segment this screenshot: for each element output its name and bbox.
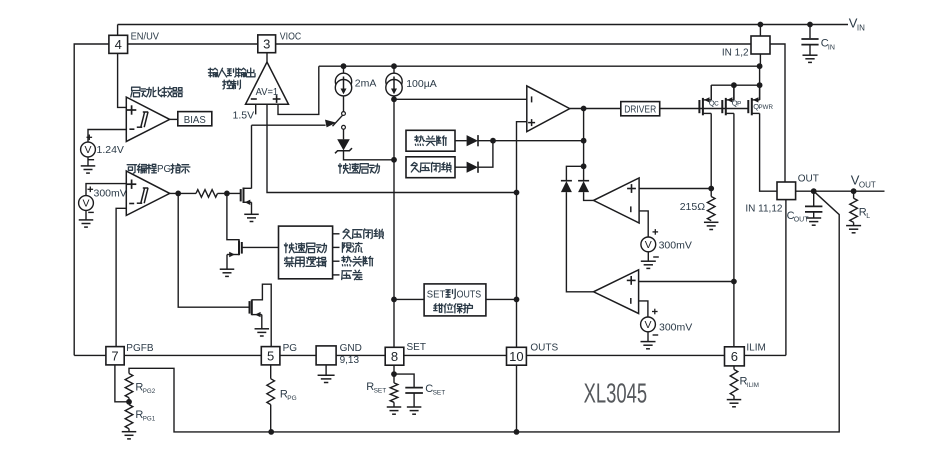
svg-text:GND: GND (340, 343, 362, 354)
svg-text:DRIVER: DRIVER (624, 104, 656, 115)
svg-text:PWR: PWR (759, 104, 774, 111)
svg-text:7: 7 (111, 349, 118, 364)
svg-text:XL3045: XL3045 (584, 378, 648, 409)
svg-text:EN/UV: EN/UV (131, 31, 160, 42)
svg-text:OUT: OUT (798, 174, 819, 185)
svg-text:5: 5 (267, 349, 274, 364)
svg-text:PG: PG (287, 395, 296, 402)
svg-text:ILIM: ILIM (747, 382, 759, 389)
svg-text:6: 6 (731, 349, 738, 364)
svg-text:V: V (84, 144, 91, 156)
svg-text:PG: PG (283, 343, 298, 354)
svg-text:8: 8 (391, 349, 398, 364)
svg-text:PG1: PG1 (143, 416, 156, 423)
svg-text:SET: SET (407, 342, 426, 353)
svg-text:4: 4 (115, 37, 122, 52)
svg-text:1.24V: 1.24V (97, 144, 124, 156)
svg-text:PGFB: PGFB (126, 343, 154, 354)
svg-text:1.5V: 1.5V (233, 109, 255, 121)
svg-text:IN: IN (857, 23, 865, 32)
svg-text:PG: PG (157, 164, 171, 175)
svg-text:VIOC: VIOC (280, 32, 301, 43)
svg-text:215Ω: 215Ω (680, 201, 706, 213)
svg-text:OUTS: OUTS (457, 290, 482, 301)
svg-text:300mV: 300mV (659, 240, 692, 252)
svg-text:OUT: OUT (859, 180, 876, 189)
svg-text:10: 10 (509, 349, 523, 364)
svg-text:P: P (737, 101, 741, 108)
svg-text:SET: SET (427, 290, 446, 301)
svg-text:300mV: 300mV (94, 188, 127, 200)
svg-text:BIAS: BIAS (184, 114, 206, 126)
svg-text:IN 1,2: IN 1,2 (722, 47, 749, 58)
svg-text:V: V (645, 239, 652, 251)
svg-text:V: V (82, 198, 89, 210)
svg-text:IN: IN (828, 44, 835, 51)
svg-text:C: C (714, 101, 719, 108)
svg-text:AV=1: AV=1 (256, 87, 279, 98)
svg-text:V: V (644, 319, 651, 331)
svg-text:ILIM: ILIM (746, 342, 765, 353)
svg-text:SET: SET (433, 390, 446, 397)
svg-text:300mV: 300mV (659, 321, 692, 333)
svg-text:OUT: OUT (794, 217, 810, 224)
svg-text:IN 11,12: IN 11,12 (745, 203, 782, 214)
svg-text:PG2: PG2 (143, 388, 156, 395)
svg-text:9,13: 9,13 (340, 355, 360, 366)
svg-text:3: 3 (263, 36, 270, 51)
svg-text:2mA: 2mA (355, 78, 377, 90)
svg-text:SET: SET (374, 388, 387, 395)
svg-text:100µA: 100µA (406, 78, 437, 90)
svg-text:OUTS: OUTS (530, 343, 558, 354)
svg-text:L: L (866, 213, 870, 220)
